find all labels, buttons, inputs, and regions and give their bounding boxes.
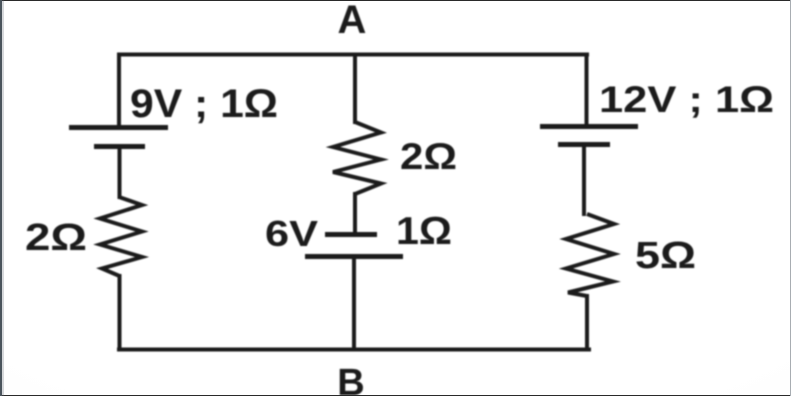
svg-text:5Ω: 5Ω	[635, 235, 696, 277]
svg-text:6V: 6V	[265, 213, 318, 254]
svg-text:2Ω: 2Ω	[400, 136, 457, 177]
svg-text:1Ω: 1Ω	[396, 210, 452, 253]
svg-text:B: B	[337, 362, 364, 396]
svg-text:12V ; 1Ω: 12V ; 1Ω	[599, 79, 774, 120]
svg-text:A: A	[338, 0, 367, 42]
svg-text:2Ω: 2Ω	[25, 217, 87, 259]
svg-text:9V ; 1Ω: 9V ; 1Ω	[130, 82, 278, 126]
